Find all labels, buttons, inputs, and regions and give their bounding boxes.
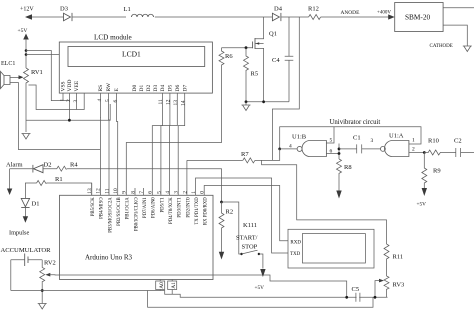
svg-text:7: 7 bbox=[139, 191, 145, 194]
svg-text:VDD: VDD bbox=[67, 80, 73, 92]
svg-text:STOP: STOP bbox=[242, 244, 258, 251]
svg-text:12: 12 bbox=[96, 188, 102, 194]
svg-text:ACCUMULATOR: ACCUMULATOR bbox=[1, 247, 52, 254]
svg-text:CATHODE: CATHODE bbox=[430, 44, 453, 49]
svg-text:R9: R9 bbox=[433, 168, 441, 175]
svg-text:PD4/T0/XCK: PD4/T0/XCK bbox=[169, 197, 174, 224]
svg-text:PB0/ICP1/CLKO: PB0/ICP1/CLKO bbox=[134, 197, 139, 231]
svg-text:Alarm: Alarm bbox=[6, 162, 23, 169]
svg-text:LCD module: LCD module bbox=[94, 34, 132, 42]
svg-text:4: 4 bbox=[289, 144, 292, 150]
svg-text:R6: R6 bbox=[225, 53, 233, 60]
svg-text:PD5/T1: PD5/T1 bbox=[160, 197, 165, 213]
svg-text:RV3: RV3 bbox=[393, 282, 405, 289]
svg-text:D3: D3 bbox=[60, 6, 68, 13]
svg-text:1: 1 bbox=[412, 138, 415, 144]
svg-text:R8: R8 bbox=[344, 164, 352, 171]
svg-text:D2: D2 bbox=[44, 162, 52, 169]
svg-text:RS: RS bbox=[98, 85, 104, 92]
svg-text:0: 0 bbox=[200, 191, 206, 194]
svg-text:D1: D1 bbox=[139, 85, 145, 92]
svg-text:PB5/SCK: PB5/SCK bbox=[91, 197, 96, 216]
svg-text:R12: R12 bbox=[308, 6, 319, 13]
svg-text:RX PD0/RXD: RX PD0/RXD bbox=[204, 197, 209, 225]
svg-text:C2: C2 bbox=[454, 138, 462, 145]
svg-text:D4: D4 bbox=[160, 85, 166, 92]
svg-text:2: 2 bbox=[182, 191, 188, 194]
svg-text:TXD: TXD bbox=[290, 252, 301, 257]
svg-text:Q1: Q1 bbox=[269, 31, 277, 38]
svg-text:C4: C4 bbox=[272, 57, 280, 64]
svg-text:6: 6 bbox=[113, 100, 119, 103]
svg-text:K111: K111 bbox=[243, 222, 257, 229]
svg-text:8: 8 bbox=[130, 191, 136, 194]
svg-text:Univibrator circuit: Univibrator circuit bbox=[330, 119, 381, 126]
svg-text:C5: C5 bbox=[352, 286, 360, 293]
svg-text:11: 11 bbox=[104, 188, 110, 194]
svg-text:9: 9 bbox=[122, 191, 128, 194]
svg-text:6: 6 bbox=[148, 191, 154, 194]
svg-text:TX PD1/TXD: TX PD1/TXD bbox=[195, 197, 200, 225]
svg-text:LCD1: LCD1 bbox=[122, 50, 141, 59]
svg-text:Impulse: Impulse bbox=[9, 230, 29, 237]
svg-text:U1:B: U1:B bbox=[292, 134, 307, 141]
svg-text:RXD: RXD bbox=[290, 241, 301, 246]
svg-text:3: 3 bbox=[73, 100, 79, 103]
svg-text:R10: R10 bbox=[428, 138, 439, 145]
svg-text:D2: D2 bbox=[146, 85, 152, 92]
svg-text:3: 3 bbox=[371, 138, 374, 144]
svg-text:Arduino Uno R3: Arduino Uno R3 bbox=[85, 254, 133, 262]
svg-text:+5V: +5V bbox=[18, 28, 28, 34]
svg-text:C1: C1 bbox=[353, 135, 361, 142]
svg-text:PB3/MOSI/OC2A: PB3/MOSI/OC2A bbox=[108, 197, 113, 233]
svg-text:RW: RW bbox=[106, 82, 112, 91]
svg-text:D3: D3 bbox=[153, 85, 159, 92]
svg-text:L1: L1 bbox=[124, 6, 131, 13]
svg-text:4: 4 bbox=[97, 99, 103, 102]
svg-text:1: 1 bbox=[191, 191, 197, 194]
svg-text:SBM-20: SBM-20 bbox=[405, 13, 430, 22]
svg-text:R11: R11 bbox=[393, 254, 404, 261]
svg-text:5: 5 bbox=[156, 191, 162, 194]
svg-text:11: 11 bbox=[158, 99, 164, 105]
svg-text:A1: A1 bbox=[171, 282, 177, 289]
svg-text:10: 10 bbox=[113, 188, 119, 194]
svg-text:D4: D4 bbox=[274, 6, 283, 13]
svg-text:5: 5 bbox=[105, 99, 111, 102]
svg-text:13: 13 bbox=[87, 188, 93, 194]
svg-text:U1:A: U1:A bbox=[389, 133, 404, 140]
svg-text:14: 14 bbox=[180, 100, 186, 106]
svg-text:12: 12 bbox=[166, 99, 172, 105]
svg-text:5: 5 bbox=[330, 138, 333, 144]
svg-text:3: 3 bbox=[174, 191, 180, 194]
svg-text:4: 4 bbox=[165, 191, 171, 194]
svg-text:R5: R5 bbox=[251, 71, 259, 78]
svg-text:PB4/MISO: PB4/MISO bbox=[100, 197, 105, 219]
svg-text:PD3/INT1: PD3/INT1 bbox=[178, 197, 183, 218]
svg-text:RV2: RV2 bbox=[44, 260, 56, 267]
svg-text:D1: D1 bbox=[32, 201, 40, 208]
svg-text:13: 13 bbox=[173, 100, 179, 106]
svg-text:R7: R7 bbox=[241, 151, 249, 158]
svg-text:D7: D7 bbox=[182, 85, 188, 92]
svg-text:VEE: VEE bbox=[74, 80, 80, 91]
svg-text:+12V: +12V bbox=[20, 7, 34, 13]
svg-text:A0: A0 bbox=[159, 282, 165, 289]
svg-text:PB1/OC1A: PB1/OC1A bbox=[126, 197, 131, 220]
svg-text:+400V: +400V bbox=[377, 11, 391, 16]
svg-text:PD7/AIN1: PD7/AIN1 bbox=[143, 197, 148, 218]
svg-text:6: 6 bbox=[330, 149, 333, 155]
svg-text:RV1: RV1 bbox=[31, 69, 43, 76]
svg-text:D5: D5 bbox=[168, 85, 174, 92]
svg-text:+5V: +5V bbox=[417, 202, 427, 208]
svg-text:1: 1 bbox=[60, 99, 66, 102]
svg-text:ELC1: ELC1 bbox=[1, 61, 15, 67]
svg-text:R2: R2 bbox=[226, 209, 234, 216]
svg-text:+5V: +5V bbox=[255, 285, 265, 291]
svg-text:PD2/INT0: PD2/INT0 bbox=[186, 197, 191, 218]
svg-text:D6: D6 bbox=[175, 85, 181, 92]
svg-text:ANODE: ANODE bbox=[341, 10, 361, 16]
svg-text:VSS: VSS bbox=[61, 81, 67, 91]
svg-text:PD6/AIN0: PD6/AIN0 bbox=[152, 197, 157, 218]
svg-text:START/: START/ bbox=[236, 235, 258, 242]
svg-text:2: 2 bbox=[412, 147, 415, 153]
svg-text:R1: R1 bbox=[55, 176, 63, 183]
svg-text:D0: D0 bbox=[132, 85, 138, 92]
svg-text:PB2/SS/OC1B: PB2/SS/OC1B bbox=[117, 197, 122, 226]
svg-text:R4: R4 bbox=[70, 162, 78, 169]
